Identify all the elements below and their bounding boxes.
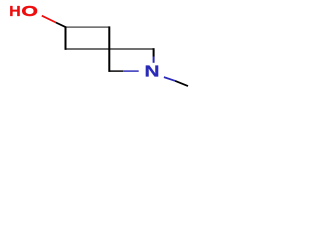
bond C3-N blue half — [153, 57, 155, 63]
svg-text:N: N — [144, 62, 159, 80]
bond N-CH3 black half — [175, 81, 188, 86]
bond C6-C5 top edge of left ring — [65, 26, 110, 28]
bond C1-N blue half — [123, 70, 139, 72]
bond O-C6 black half — [56, 23, 66, 28]
bond O-C6 red half — [42, 16, 56, 23]
bond C6-C7 left edge of left ring — [65, 26, 67, 49]
bond C5-C4 / C4-C1 long vertical — [108, 26, 110, 72]
bond C7-C4 / C4-C3 long horizontal — [65, 48, 154, 50]
bond C3-N black half — [153, 48, 155, 56]
bond C1-N black half — [109, 70, 123, 72]
bond N-CH3 blue half — [164, 77, 175, 81]
svg-text:H: H — [9, 3, 21, 19]
svg-text:O: O — [21, 2, 38, 19]
